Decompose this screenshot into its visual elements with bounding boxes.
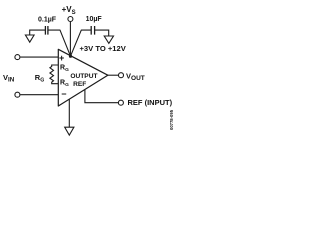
svg-text:VIN: VIN — [3, 73, 15, 84]
ground (right of 10uF) — [104, 36, 113, 43]
svg-text:00778-095: 00778-095 — [169, 109, 174, 130]
terminal REF — [118, 100, 123, 105]
resistor RG (gain) with leads — [50, 65, 58, 84]
svg-text:10µF: 10µF — [86, 16, 103, 23]
wire +VS vertical to junction — [69, 22, 71, 56]
wire output — [108, 74, 119, 76]
terminal +VS — [68, 17, 73, 22]
svg-text:RG: RG — [35, 73, 44, 84]
wire V- to ground — [68, 99, 70, 127]
svg-text:RG: RG — [60, 64, 69, 73]
svg-text:0.1µF: 0.1µF — [38, 17, 57, 24]
node supply junction dot — [69, 55, 72, 58]
capacitor C1 0.1uF plates — [45, 26, 48, 35]
svg-text:VOUT: VOUT — [126, 72, 145, 83]
wire +IN — [20, 56, 58, 58]
svg-text:+: + — [59, 53, 64, 63]
svg-text:−: − — [61, 89, 66, 99]
ground (left of 0.1uF) — [25, 35, 34, 42]
wire REF pin — [85, 90, 118, 103]
op-amp U1 triangle — [58, 49, 108, 106]
svg-text:REF (INPUT): REF (INPUT) — [128, 98, 173, 107]
ground (below op-amp) — [65, 127, 74, 135]
wire right decoupling rail — [71, 30, 92, 56]
svg-text:REF: REF — [73, 81, 86, 88]
terminal VIN bottom — [15, 92, 20, 97]
capacitor C2 10uF plates — [91, 26, 94, 35]
terminal VIN top — [15, 55, 20, 60]
svg-text:+3V TO +12V: +3V TO +12V — [80, 44, 127, 53]
svg-text:OUTPUT: OUTPUT — [70, 73, 97, 80]
wire -IN — [20, 94, 58, 96]
terminal VOUT — [119, 73, 124, 78]
svg-text:+VS: +VS — [62, 5, 76, 16]
wire left decoupling rail — [48, 30, 71, 56]
svg-text:RG: RG — [60, 80, 69, 89]
